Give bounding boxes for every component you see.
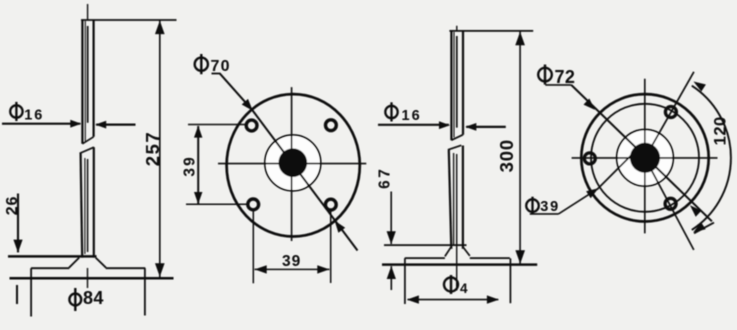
svg-text:72: 72 [555, 67, 576, 87]
svg-text:4: 4 [460, 281, 468, 296]
svg-text:120: 120 [712, 116, 730, 145]
svg-text:257: 257 [142, 131, 163, 166]
svg-text:67: 67 [376, 167, 393, 189]
svg-text:300: 300 [496, 139, 517, 172]
svg-text:39: 39 [282, 253, 301, 270]
svg-text:70: 70 [211, 58, 231, 75]
svg-text:16: 16 [402, 108, 422, 124]
svg-text:39: 39 [182, 155, 199, 177]
svg-text:39: 39 [540, 199, 560, 215]
svg-text:16: 16 [24, 107, 44, 123]
svg-text:84: 84 [83, 288, 104, 308]
